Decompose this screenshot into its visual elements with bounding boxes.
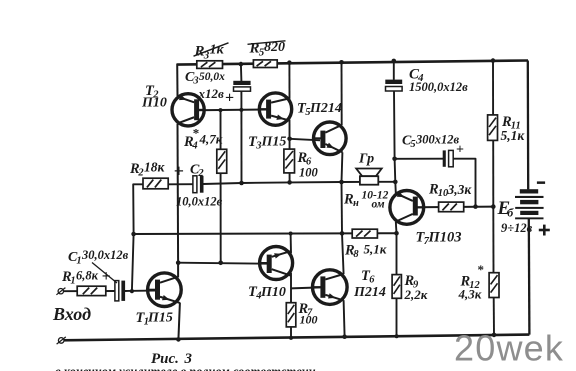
svg-text:ом: ом xyxy=(372,199,385,211)
svg-text:4,7к: 4,7к xyxy=(199,132,223,147)
svg-text:х12в: х12в xyxy=(198,86,225,101)
svg-text:б: б xyxy=(507,206,514,220)
svg-text:н: н xyxy=(353,198,359,209)
svg-text:6,8к: 6,8к xyxy=(76,269,99,283)
svg-text:8: 8 xyxy=(353,249,359,260)
svg-text:1500,0х12в: 1500,0х12в xyxy=(409,80,468,94)
svg-text:5,1к: 5,1к xyxy=(501,128,526,143)
svg-text:30,0х12в: 30,0х12в xyxy=(81,248,129,262)
svg-text:3: 3 xyxy=(192,76,198,87)
svg-text:10,0х12в: 10,0х12в xyxy=(176,195,223,209)
svg-text:4,3к: 4,3к xyxy=(458,287,482,302)
svg-text:Гр: Гр xyxy=(358,152,374,167)
svg-text:П10: П10 xyxy=(141,96,167,111)
svg-text:+: + xyxy=(174,161,184,181)
svg-text:3,3к: 3,3к xyxy=(447,182,473,197)
svg-text:3: 3 xyxy=(255,141,261,152)
svg-text:50,0х: 50,0х xyxy=(199,71,225,83)
svg-text:20wek: 20wek xyxy=(454,328,564,369)
svg-text:+: + xyxy=(102,268,111,285)
svg-text:Вход: Вход xyxy=(52,304,91,324)
svg-text:100: 100 xyxy=(300,313,318,327)
svg-text:П15: П15 xyxy=(147,311,173,326)
svg-text:+: + xyxy=(225,90,234,107)
svg-text:*: * xyxy=(193,126,200,141)
svg-text:18к: 18к xyxy=(144,160,166,175)
svg-text:4: 4 xyxy=(191,141,197,152)
svg-text:5,1к: 5,1к xyxy=(364,242,387,257)
svg-text:2,2к: 2,2к xyxy=(404,287,428,302)
svg-text:П10: П10 xyxy=(260,285,286,300)
svg-text:П103: П103 xyxy=(428,229,462,245)
svg-text:9÷12в: 9÷12в xyxy=(501,221,533,235)
svg-text:в конечном усилителе в полном: в конечном усилителе в полном соответств… xyxy=(55,365,316,371)
svg-text:1: 1 xyxy=(76,256,81,267)
svg-text:6: 6 xyxy=(369,275,375,286)
svg-text:*: * xyxy=(478,262,485,277)
svg-text:300х12в: 300х12в xyxy=(415,133,460,147)
svg-text:1: 1 xyxy=(70,276,75,287)
svg-text:2: 2 xyxy=(197,168,204,179)
svg-text:П214: П214 xyxy=(309,101,342,116)
svg-text:100: 100 xyxy=(299,166,319,180)
svg-text:П15: П15 xyxy=(261,135,287,150)
svg-text:+: + xyxy=(456,143,464,158)
svg-text:5: 5 xyxy=(410,139,415,150)
svg-text:П214: П214 xyxy=(353,285,386,300)
